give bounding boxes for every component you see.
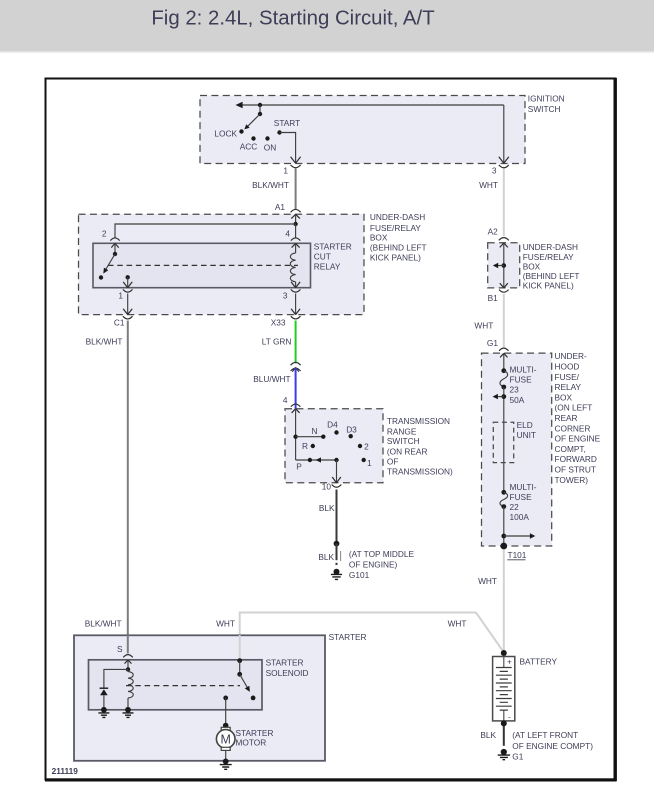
svg-text:UNDER-DASH: UNDER-DASH [370,212,425,222]
svg-text:A1: A1 [275,202,286,212]
node solenoid coil junction [126,660,130,672]
wire trans P branch [296,459,337,461]
trans switch arm arrowhead [316,457,322,462]
svg-text:G101: G101 [349,570,370,580]
terminal S connector [117,644,133,664]
svg-text:2: 2 [102,229,107,239]
wire relay pin1 to C1 [127,294,129,315]
connector C1 [114,309,133,328]
svg-text:22: 22 [510,502,520,512]
svg-text:COMPT,: COMPT, [555,444,586,454]
under-hood fuse/relay box [482,351,601,546]
wire ignition feed bus [236,102,504,108]
wire BLK battery to G1 [480,726,503,746]
wire junction to diode branch [104,669,128,688]
svg-text:4: 4 [283,395,288,405]
svg-text:X33: X33 [271,318,286,328]
svg-text:100A: 100A [510,512,530,522]
svg-text:SWITCH: SWITCH [387,436,420,446]
multi-fuse 22 100A [500,482,537,522]
svg-text:D3: D3 [346,425,357,435]
ignition switch box [200,93,565,163]
svg-text:WHT: WHT [474,320,493,330]
wire START contact to pin 1 [280,133,296,164]
svg-text:3: 3 [492,166,497,176]
svg-text:BLU/WHT: BLU/WHT [253,374,290,384]
svg-text:P: P [296,461,302,471]
wire WHT battery to starter solenoid [216,613,502,661]
svg-text:(ON REAR: (ON REAR [387,447,428,457]
node stub arrow above T101 [501,533,535,538]
ground coil [123,707,134,718]
wire junction to relay pin 2 [115,224,296,238]
inline connector green/blue [291,362,301,371]
pin 2 relay connector [102,229,120,248]
svg-text:(BEHIND LEFT: (BEHIND LEFT [523,271,580,281]
contact R [302,441,315,451]
wire BLU/WHT splice to trans pin 4 [253,368,295,409]
svg-text:TRANSMISSION): TRANSMISSION) [387,467,453,477]
title bar [0,0,654,51]
pin 10 trans connector [322,477,342,492]
svg-text:STARTER: STARTER [314,242,352,252]
svg-text:UNDER-: UNDER- [555,351,588,361]
frame border [45,78,617,782]
svg-text:G1: G1 [487,338,498,348]
pin 1 relay connector [118,282,132,301]
contact LOCK [214,128,243,138]
relay coil L1 [290,243,295,287]
svg-text:KICK PANEL): KICK PANEL) [370,253,421,263]
svg-text:S: S [117,644,123,654]
svg-text:TOWER): TOWER) [555,475,589,485]
relay switch common node [113,243,117,256]
node under-dash junction [293,222,297,226]
starter cut relay K1 [93,242,352,288]
svg-text:KICK PANEL): KICK PANEL) [523,281,574,291]
starter solenoid box [89,657,309,710]
svg-text:UNDER-DASH: UNDER-DASH [523,242,578,252]
svg-text:(ON LEFT: (ON LEFT [555,403,593,413]
svg-text:D4: D4 [327,419,338,429]
svg-text:WHT: WHT [216,619,235,629]
wire A1 to junction [295,214,297,224]
wire BLK splice to G101 [318,544,340,565]
svg-text:1: 1 [367,458,372,468]
node motor contact [223,696,228,726]
svg-text:(BEHIND LEFT: (BEHIND LEFT [370,243,427,253]
svg-text:G1: G1 [512,752,523,762]
battery [493,650,558,726]
multi-fuse 23 50A [500,364,537,405]
svg-text:BLK: BLK [318,552,334,562]
svg-text:Fig 2: 2.4L, Starting Circuit,: Fig 2: 2.4L, Starting Circuit, A/T [151,8,434,30]
pin 3 relay connector [283,282,301,301]
wire through A2 box [503,243,505,288]
svg-text:CORNER: CORNER [555,423,591,433]
wire WHT B1 to G1 [474,294,503,347]
connector A1 [275,202,301,219]
svg-text:BLK/WHT: BLK/WHT [85,619,122,629]
wire motor to ground [225,750,227,761]
starter motor M1 [216,723,273,751]
svg-text:OF: OF [387,456,399,466]
wire LT GRN X33 to splice [262,321,296,364]
node solenoid battery feed [237,658,242,676]
svg-text:ON: ON [264,142,276,152]
svg-text:BOX: BOX [523,262,541,272]
under-dash fuse/relay box left [79,212,427,314]
svg-text:FORWARD: FORWARD [555,454,597,464]
svg-text:23: 23 [510,385,520,395]
svg-text:BLK: BLK [319,503,335,513]
ground diode [98,707,109,718]
wire ignition internal to pin 3 [503,105,505,163]
relay switch arm [103,254,115,274]
svg-text:START: START [274,118,300,128]
node trans N branch [293,435,323,439]
svg-text:1: 1 [283,166,288,176]
pin 1 ignition connector [283,157,300,176]
contact N [312,426,326,439]
contact D3 [346,425,357,439]
svg-text:LOCK: LOCK [214,128,237,138]
svg-text:IGNITION: IGNITION [528,93,565,103]
svg-text:MULTI-: MULTI- [510,482,537,492]
ELD unit box [493,420,536,463]
node BLK splice [334,541,340,547]
svg-text:WHT: WHT [448,619,467,629]
svg-text:N: N [312,426,318,436]
svg-text:OF ENGINE): OF ENGINE) [349,560,398,570]
svg-text:M: M [220,732,230,746]
svg-text:T101: T101 [508,550,527,560]
contact 1 [362,458,373,468]
svg-text:MULTI-: MULTI- [510,364,537,374]
wire WHT T101 to battery [478,550,504,651]
svg-text:BLK/WHT: BLK/WHT [252,180,289,190]
relay mechanical linkage [108,264,298,266]
contact P [296,458,312,472]
wire fuse 22 to T101 [503,507,505,546]
svg-text:WHT: WHT [478,576,497,586]
svg-text:OF ENGINE: OF ENGINE [555,434,601,444]
svg-text:50A: 50A [510,395,525,405]
svg-text:3: 3 [283,291,288,301]
svg-text:STARTER: STARTER [236,728,274,738]
svg-text:4: 4 [285,229,290,239]
svg-text:HOOD: HOOD [555,362,580,372]
contact ACC [240,136,258,151]
svg-text:STARTER: STARTER [329,632,367,642]
pin 3 ignition connector [492,157,509,176]
wire BLK/WHT inside starter box [127,635,129,654]
wire BLK/WHT pin1 to A1 [252,169,295,211]
svg-text:RANGE: RANGE [387,426,417,436]
svg-text:(AT LEFT FRONT: (AT LEFT FRONT [512,730,578,740]
svg-text:C1: C1 [114,318,125,328]
svg-text:UNIT: UNIT [517,430,536,440]
svg-text:BLK/WHT: BLK/WHT [86,337,123,347]
solenoid mechanical linkage [126,685,240,687]
connector A2 [488,227,509,248]
svg-text:TRANSMISSION: TRANSMISSION [387,416,450,426]
pin 4 trans connector [291,404,300,413]
contact START [274,118,300,135]
wire WHT inside starter box [239,635,241,661]
svg-text:FUSE/RELAY: FUSE/RELAY [523,252,574,262]
pin 4 relay connector [291,238,300,248]
relay pin 1 node [126,275,130,288]
ground G101 [331,549,415,580]
wire BLK pin 10 to splice [319,490,337,544]
ignition switch arm to LOCK [244,114,260,129]
svg-text:OF ENGINE COMPT): OF ENGINE COMPT) [512,741,593,751]
svg-text:B1: B1 [488,293,499,303]
node ignition rotor pivot [258,103,262,116]
svg-text:1: 1 [118,291,123,301]
svg-text:-: - [508,711,511,721]
svg-text:CUT: CUT [314,252,331,262]
under-dash fuse/relay box right (A2/B1) [488,242,580,291]
svg-text:BATTERY: BATTERY [520,656,558,666]
ground starter motor [220,759,232,770]
ground G1 [498,730,594,761]
svg-text:(AT TOP MIDDLE: (AT TOP MIDDLE [349,549,415,559]
svg-text:WHT: WHT [479,180,498,190]
svg-text:RELAY: RELAY [555,382,582,392]
connector B1 [488,283,509,303]
wire relay pin3 to X33 [295,294,297,315]
transmission range switch box [285,409,453,483]
svg-text:SWITCH: SWITCH [528,104,561,114]
svg-text:BOX: BOX [370,232,388,242]
node trans arm pivot [334,458,338,462]
node stub arrow below fuse 23 [493,394,507,399]
svg-text:ELD: ELD [517,420,533,430]
svg-text:MOTOR: MOTOR [236,738,267,748]
wire fuse 23 down through ELD [503,387,505,492]
connector X33 [271,309,301,328]
svg-text:FUSE/: FUSE/ [555,372,580,382]
diode D1 [100,688,109,710]
connector G1 under-hood [487,338,509,358]
svg-text:BOX: BOX [555,392,573,402]
svg-text:A2: A2 [488,227,499,237]
contact D4 [327,419,339,434]
svg-text:+: + [507,656,512,666]
terminal T101 [500,543,526,560]
contact ON [264,136,276,152]
svg-text:211119: 211119 [52,766,79,776]
svg-text:BLK: BLK [480,730,496,740]
wire BLK/WHT C1 to starter S [85,321,128,654]
svg-text:RELAY: RELAY [314,262,341,272]
svg-text:2: 2 [364,441,369,451]
svg-text:10: 10 [322,482,332,492]
svg-text:STARTER: STARTER [266,657,304,667]
node A2 box junction with stub arrow [493,263,506,268]
relay contact [99,275,103,279]
svg-text:REAR: REAR [555,413,578,423]
wire pivot to pin 10 [336,460,338,483]
contact 2 [358,441,369,451]
solenoid switch arm [240,674,250,692]
wire trans common [295,409,297,460]
wire G1 to fuse 23 [503,353,505,370]
svg-text:OF STRUT: OF STRUT [555,465,596,475]
svg-text:FUSE/RELAY: FUSE/RELAY [370,223,421,233]
svg-text:R: R [302,441,308,451]
svg-text:FUSE: FUSE [510,375,533,385]
wire WHT pin3 to A2 [479,169,504,237]
solenoid contact to motor [251,696,256,701]
wire junction to relay pin 4 [285,224,295,239]
solenoid pull-in coil L2 [128,669,133,709]
svg-text:ACC: ACC [240,142,258,152]
svg-text:SOLENOID: SOLENOID [266,668,309,678]
starter assembly box [74,632,367,761]
svg-text:FUSE: FUSE [510,492,533,502]
svg-text:LT GRN: LT GRN [262,337,292,347]
